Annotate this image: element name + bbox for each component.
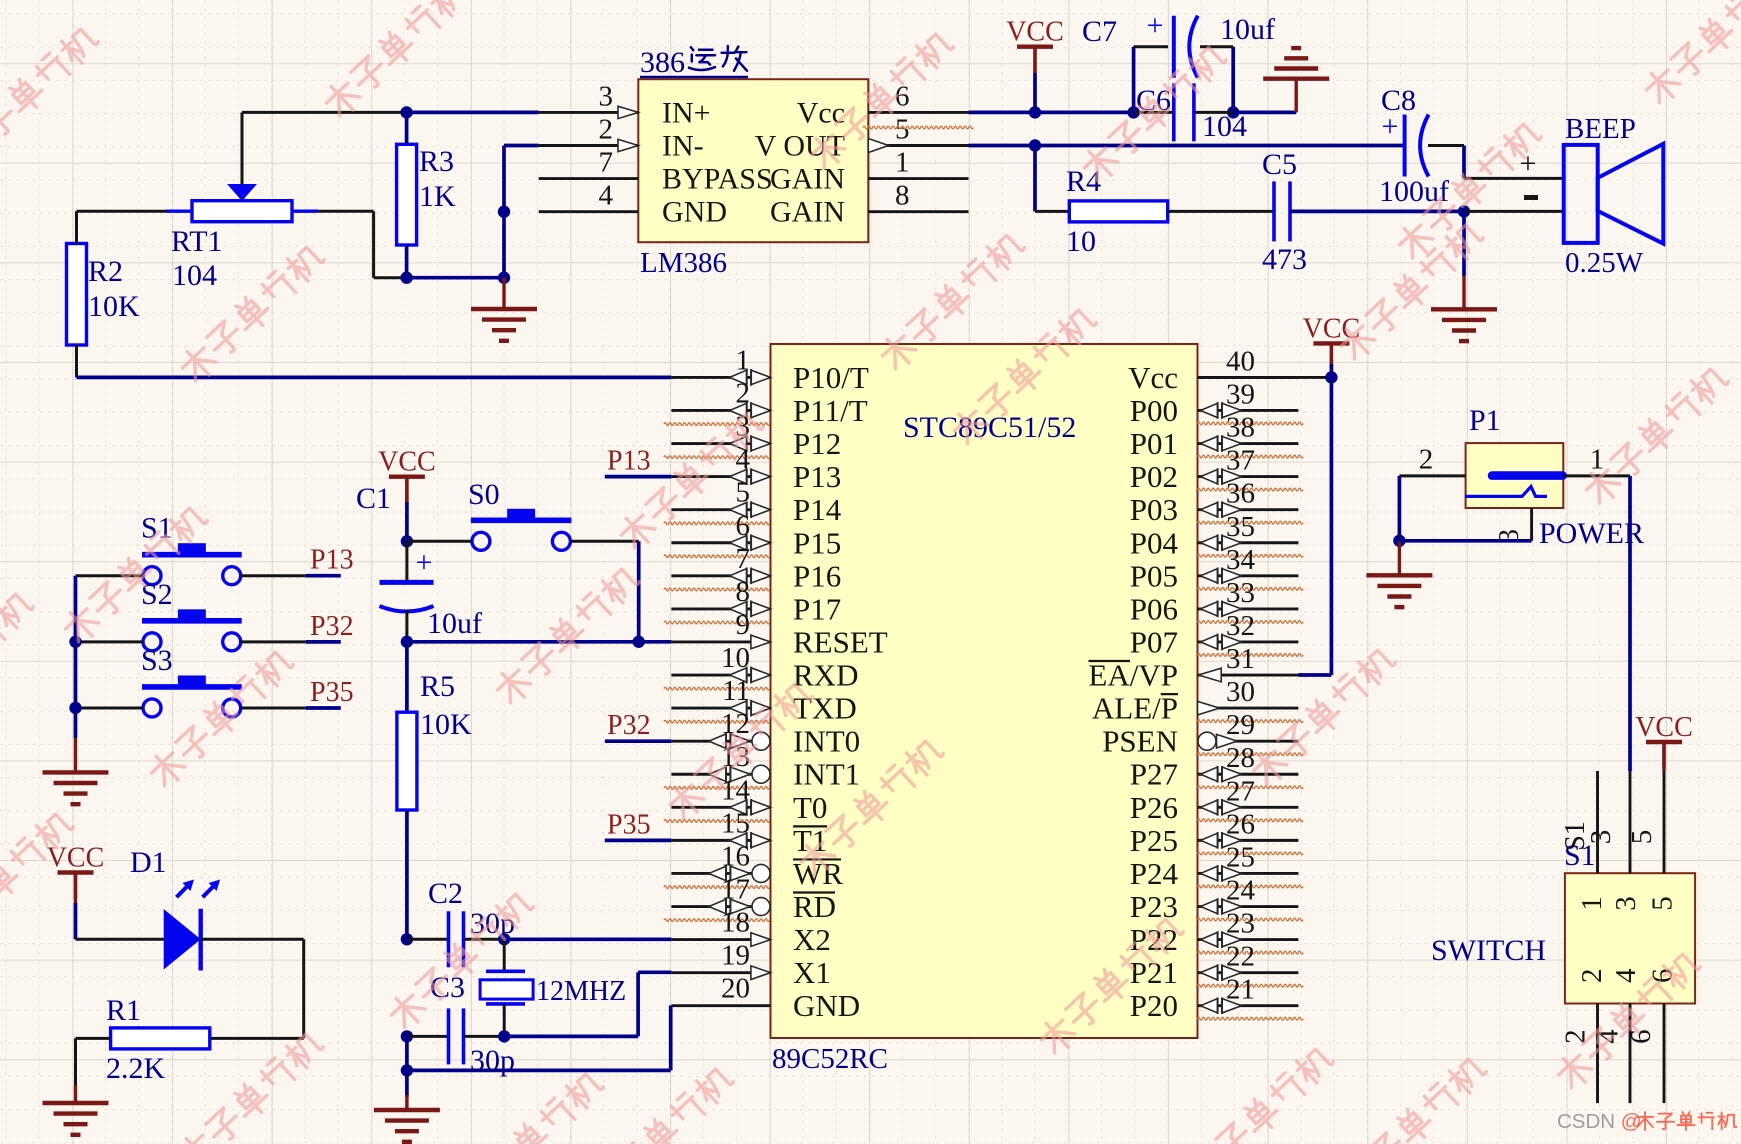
svg-text:EA/VP: EA/VP: [1088, 658, 1178, 693]
svg-text:P05: P05: [1130, 558, 1178, 593]
svg-text:1: 1: [736, 344, 751, 376]
svg-text:1K: 1K: [419, 180, 456, 213]
svg-text:386: 386: [640, 46, 685, 79]
svg-text:C5: C5: [1262, 148, 1297, 181]
svg-text:1: 1: [1576, 896, 1608, 911]
svg-text:10uf: 10uf: [427, 607, 482, 640]
svg-text:27: 27: [1226, 775, 1255, 807]
svg-text:P13: P13: [607, 446, 651, 477]
svg-text:7: 7: [599, 147, 614, 179]
svg-text:34: 34: [1226, 544, 1256, 576]
svg-text:S1: S1: [1564, 839, 1596, 872]
svg-text:C2: C2: [428, 877, 463, 910]
svg-text:GND: GND: [793, 988, 860, 1023]
svg-text:P13: P13: [793, 459, 841, 494]
svg-text:T0: T0: [793, 790, 827, 825]
svg-text:P35: P35: [310, 677, 354, 708]
svg-text:P13: P13: [310, 545, 354, 576]
svg-text:26: 26: [1226, 808, 1255, 840]
svg-text:12: 12: [721, 708, 750, 740]
svg-text:104: 104: [172, 259, 217, 292]
svg-text:P12: P12: [793, 426, 841, 461]
svg-text:2: 2: [736, 377, 751, 409]
svg-text:32: 32: [1226, 610, 1255, 642]
svg-text:P26: P26: [1130, 790, 1178, 825]
svg-text:IN+: IN+: [662, 96, 711, 129]
svg-text:3: 3: [1610, 896, 1642, 911]
svg-text:P03: P03: [1130, 492, 1178, 527]
svg-text:CSDN @: CSDN @: [1557, 1110, 1642, 1133]
svg-text:24: 24: [1226, 875, 1256, 907]
svg-text:P17: P17: [793, 591, 841, 626]
svg-text:10: 10: [721, 642, 750, 674]
svg-text:VCC: VCC: [1303, 313, 1361, 344]
svg-text:P21: P21: [1130, 955, 1178, 990]
svg-text:2: 2: [1576, 968, 1608, 983]
svg-text:S0: S0: [468, 478, 500, 511]
svg-text:18: 18: [721, 907, 750, 939]
svg-text:SWITCH: SWITCH: [1431, 934, 1546, 967]
svg-text:+: +: [1147, 9, 1164, 42]
svg-text:P10/T: P10/T: [793, 360, 869, 395]
svg-text:R3: R3: [419, 145, 454, 178]
svg-text:D1: D1: [130, 846, 167, 879]
svg-text:INT1: INT1: [793, 757, 860, 792]
svg-text:VCC: VCC: [1635, 712, 1693, 743]
svg-text:X2: X2: [793, 922, 831, 957]
svg-text:P01: P01: [1130, 426, 1178, 461]
svg-text:TXD: TXD: [793, 691, 857, 726]
svg-text:17: 17: [721, 874, 750, 906]
svg-text:P24: P24: [1130, 856, 1179, 891]
svg-text:14: 14: [721, 774, 751, 806]
svg-text:37: 37: [1226, 445, 1255, 477]
svg-text:P07: P07: [1130, 624, 1178, 659]
svg-text:1: 1: [1590, 444, 1605, 476]
svg-text:INT0: INT0: [793, 724, 860, 759]
svg-text:P04: P04: [1130, 525, 1179, 560]
svg-text:P1: P1: [1469, 404, 1501, 437]
svg-text:16: 16: [721, 840, 750, 872]
svg-text:P11/T: P11/T: [793, 393, 868, 428]
svg-text:P23: P23: [1130, 889, 1178, 924]
svg-text:6: 6: [736, 510, 751, 542]
svg-text:35: 35: [1226, 511, 1255, 543]
svg-text:LM386: LM386: [640, 247, 727, 279]
svg-text:C7: C7: [1082, 15, 1117, 48]
svg-text:4: 4: [599, 180, 614, 212]
svg-text:C1: C1: [356, 482, 391, 515]
svg-text:BEEP: BEEP: [1565, 113, 1636, 145]
svg-text:C8: C8: [1381, 84, 1416, 117]
svg-text:GND: GND: [662, 196, 727, 229]
svg-text:5: 5: [736, 477, 751, 509]
svg-text:2.2K: 2.2K: [106, 1052, 166, 1085]
svg-text:1: 1: [895, 147, 910, 179]
svg-text:P16: P16: [793, 558, 841, 593]
svg-text:2: 2: [599, 114, 614, 146]
svg-text:R1: R1: [106, 994, 141, 1027]
svg-text:X1: X1: [793, 955, 831, 990]
svg-text:ALE/P: ALE/P: [1092, 691, 1178, 726]
svg-text:33: 33: [1226, 577, 1255, 609]
svg-text:P02: P02: [1130, 459, 1178, 494]
svg-text:30: 30: [1226, 676, 1255, 708]
svg-text:GAIN: GAIN: [770, 163, 845, 196]
svg-text:BYPASS: BYPASS: [662, 163, 773, 196]
svg-text:RXD: RXD: [793, 658, 858, 693]
svg-text:Vcc: Vcc: [1128, 360, 1178, 395]
svg-text:STC89C51/52: STC89C51/52: [903, 411, 1076, 444]
svg-text:R2: R2: [88, 255, 123, 288]
svg-text:RD: RD: [793, 889, 836, 924]
svg-text:21: 21: [1226, 974, 1255, 1006]
svg-text:+: +: [416, 546, 433, 579]
svg-text:15: 15: [721, 807, 750, 839]
svg-text:22: 22: [1226, 941, 1255, 973]
svg-text:29: 29: [1226, 709, 1255, 741]
svg-text:PSEN: PSEN: [1102, 724, 1178, 759]
svg-text:RESET: RESET: [793, 624, 888, 659]
svg-text:104: 104: [1202, 110, 1247, 143]
svg-text:7: 7: [736, 543, 751, 575]
svg-text:6: 6: [1625, 1029, 1657, 1044]
svg-text:28: 28: [1226, 742, 1255, 774]
svg-text:39: 39: [1226, 378, 1255, 410]
svg-text:38: 38: [1226, 412, 1255, 444]
svg-text:20: 20: [721, 973, 750, 1005]
svg-text:40: 40: [1226, 345, 1255, 377]
svg-text:S3: S3: [141, 644, 173, 677]
svg-text:5: 5: [1647, 896, 1679, 911]
svg-text:2: 2: [1419, 444, 1434, 476]
svg-text:100uf: 100uf: [1379, 175, 1449, 208]
svg-text:P06: P06: [1130, 591, 1178, 626]
svg-text:P27: P27: [1130, 757, 1178, 792]
svg-text:P25: P25: [1130, 823, 1178, 858]
svg-text:19: 19: [721, 940, 750, 972]
svg-text:89C52RC: 89C52RC: [772, 1043, 888, 1075]
svg-text:4: 4: [1610, 968, 1642, 983]
svg-text:10K: 10K: [88, 290, 140, 323]
svg-text:R5: R5: [420, 670, 455, 703]
svg-text:P15: P15: [793, 525, 841, 560]
svg-text:P00: P00: [1130, 393, 1178, 428]
svg-text:P32: P32: [607, 710, 651, 741]
svg-text:P32: P32: [310, 611, 354, 642]
svg-text:P14: P14: [793, 492, 842, 527]
svg-text:VCC: VCC: [378, 447, 436, 478]
svg-text:RT1: RT1: [171, 225, 223, 258]
svg-text:23: 23: [1226, 908, 1255, 940]
svg-text:10K: 10K: [420, 708, 472, 741]
svg-text:36: 36: [1226, 478, 1255, 510]
svg-text:10uf: 10uf: [1220, 13, 1275, 46]
svg-text:9: 9: [736, 609, 751, 641]
svg-text:11: 11: [722, 675, 750, 707]
svg-text:P35: P35: [607, 809, 651, 840]
svg-text:5: 5: [1626, 830, 1658, 845]
svg-text:P20: P20: [1130, 988, 1178, 1023]
svg-text:10: 10: [1066, 225, 1096, 258]
svg-text:12MHZ: 12MHZ: [536, 976, 626, 1007]
svg-text:S2: S2: [141, 578, 173, 611]
svg-text:473: 473: [1262, 243, 1307, 276]
svg-text:VCC: VCC: [1006, 17, 1064, 48]
svg-text:3: 3: [599, 80, 614, 112]
svg-text:25: 25: [1226, 841, 1255, 873]
svg-text:8: 8: [895, 180, 910, 212]
svg-text:8: 8: [736, 576, 751, 608]
svg-text:0.25W: 0.25W: [1565, 247, 1644, 279]
svg-text:IN-: IN-: [662, 130, 704, 163]
svg-text:5: 5: [895, 114, 910, 146]
svg-text:GAIN: GAIN: [770, 196, 845, 229]
svg-text:31: 31: [1226, 643, 1255, 675]
